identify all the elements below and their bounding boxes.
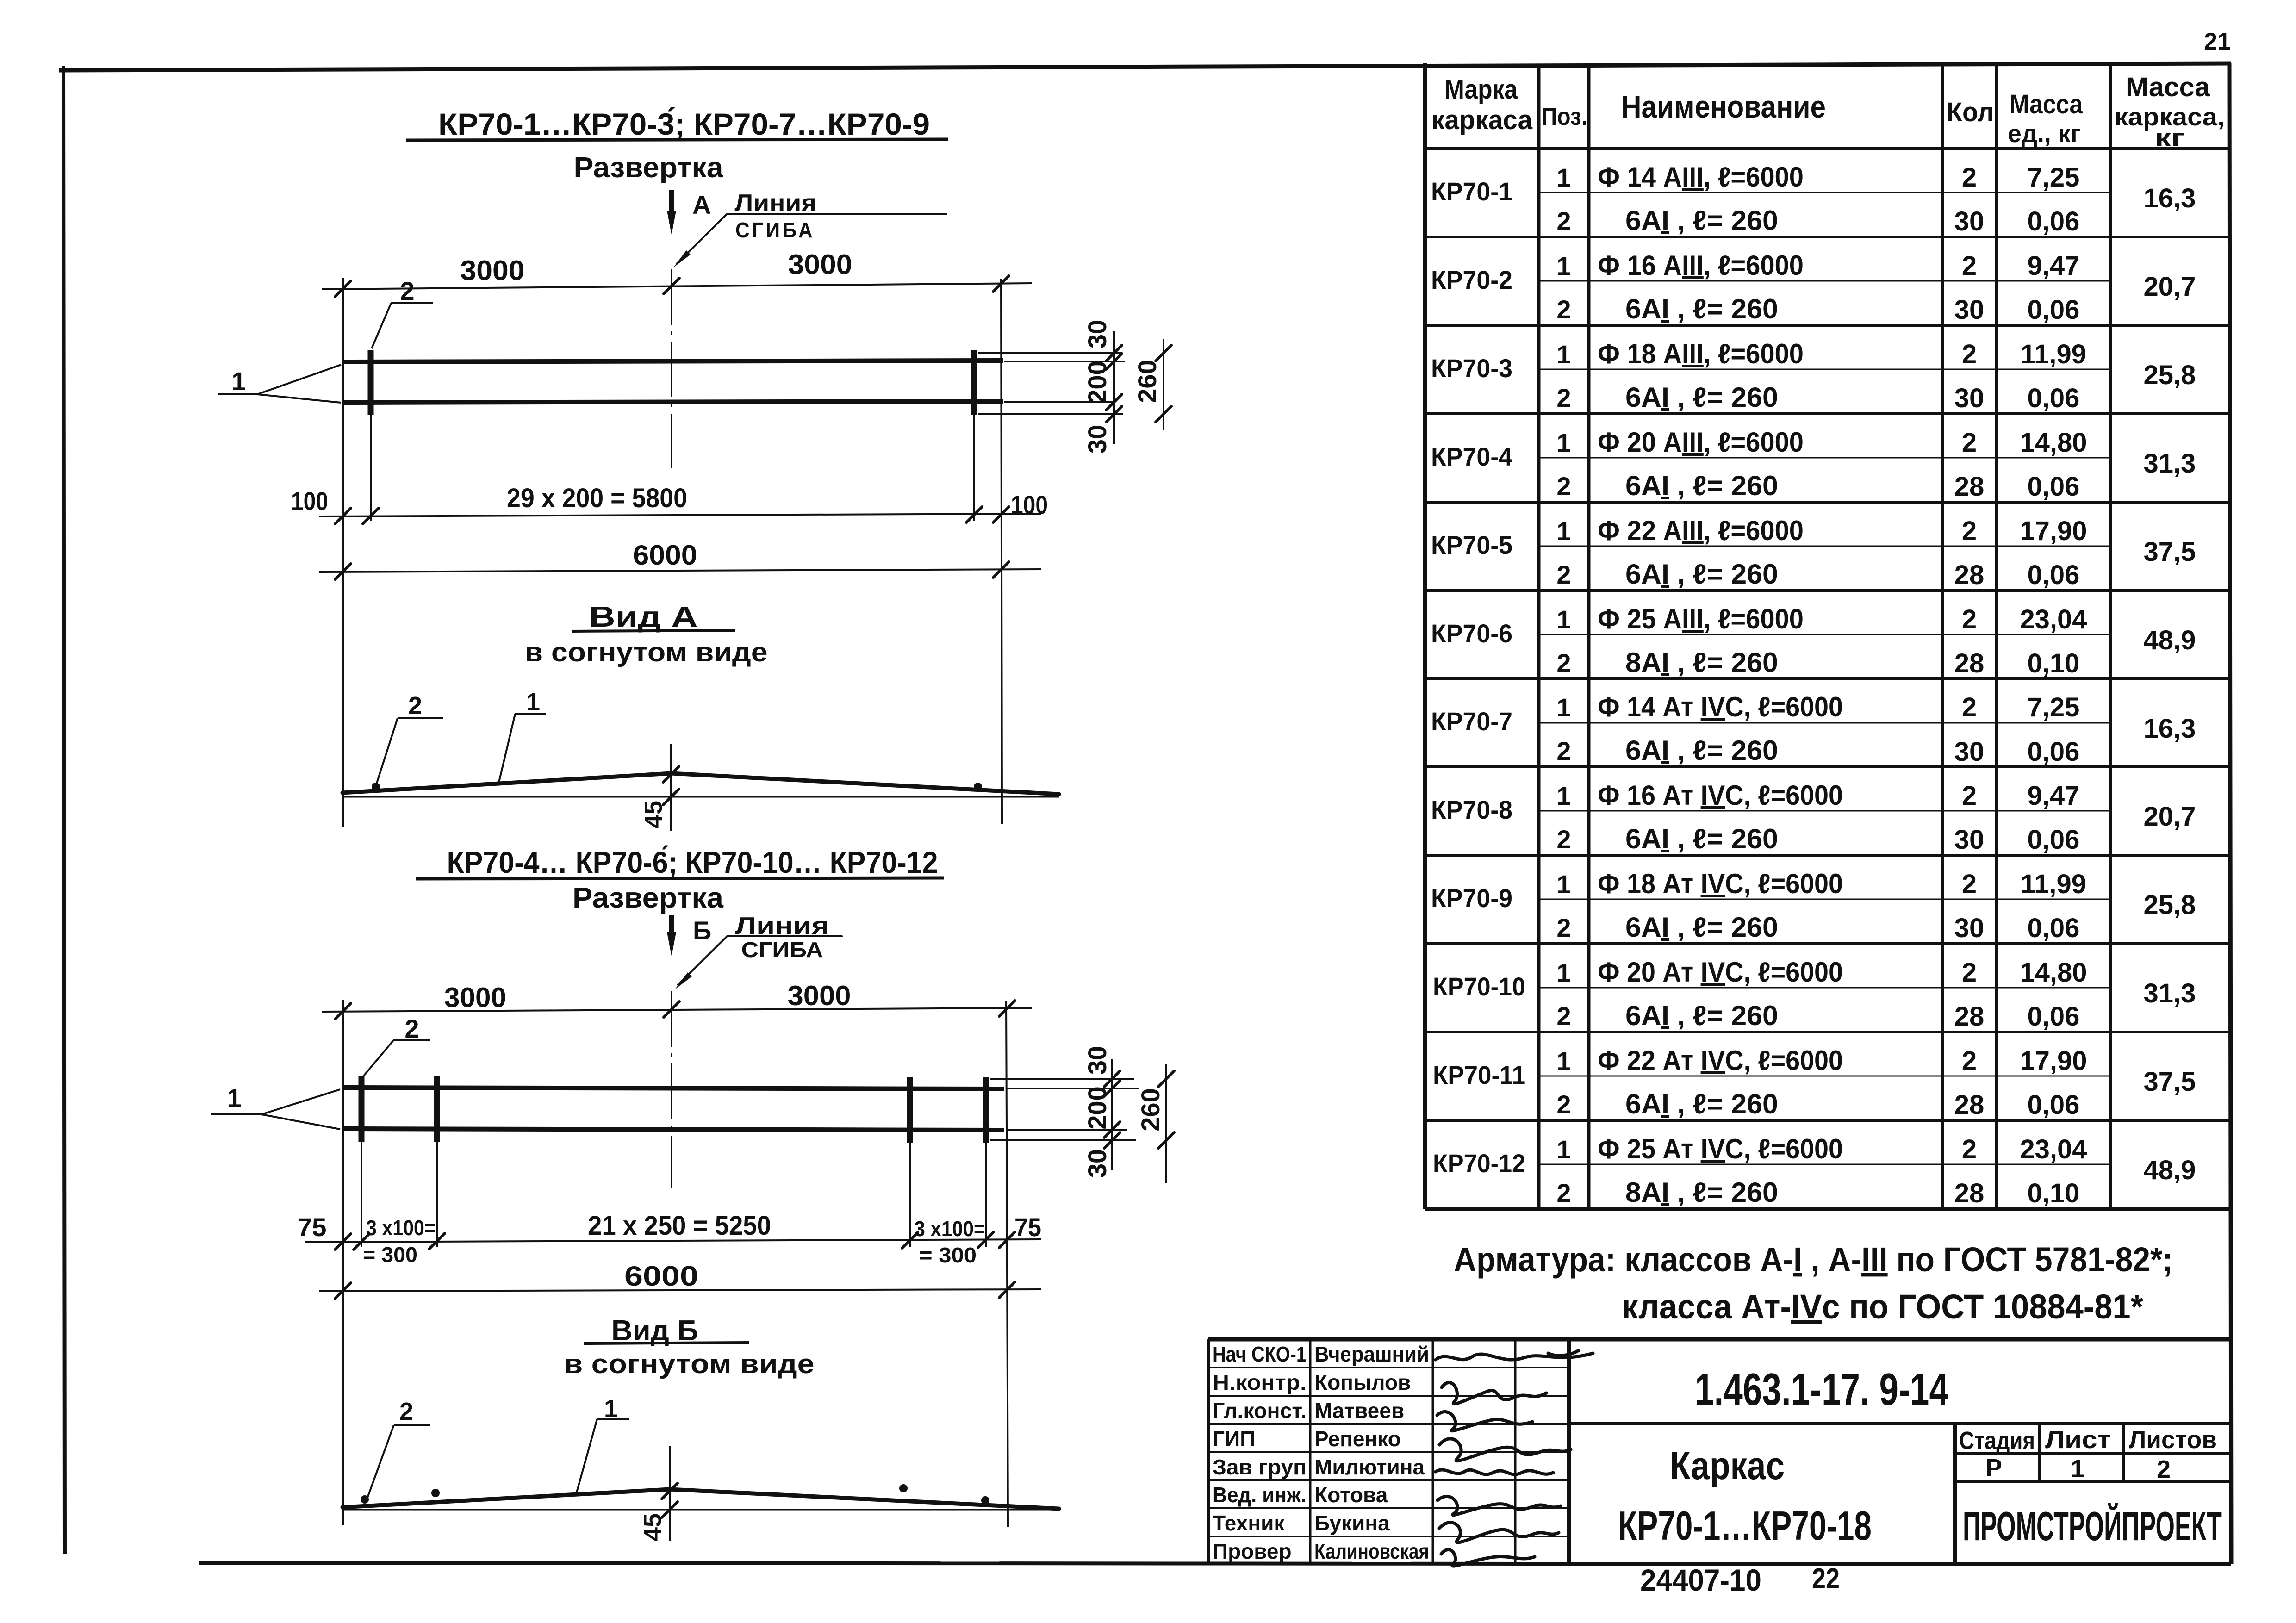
svg-text:Матвеев: Матвеев: [1314, 1399, 1404, 1423]
pos 2 cell КР70-7: [1556, 736, 1571, 765]
svg-text:Наименование: Наименование: [1621, 89, 1826, 124]
dimension 45 (view A): [640, 744, 679, 831]
svg-text:Милютина: Милютина: [1314, 1455, 1425, 1479]
svg-text:КР70-7: КР70-7: [1431, 707, 1512, 736]
svg-text:75: 75: [1014, 1213, 1041, 1242]
svg-text:Вид А: Вид А: [589, 601, 698, 633]
svg-text:КР70-1: КР70-1: [1431, 177, 1512, 206]
sheet copy number 22: [1812, 1563, 1840, 1595]
svg-text:24407-10: 24407-10: [1640, 1563, 1761, 1597]
label Линия сгиба (drawing 2): [675, 913, 842, 989]
qty 1 cell КР70-10: [1962, 958, 1977, 988]
parts table header bottom border: [1425, 147, 2229, 150]
svg-text:Копылов: Копылов: [1314, 1370, 1411, 1394]
mark cell КР70-7: [1431, 707, 1512, 736]
svg-text:3 x100=: 3 x100=: [915, 1217, 985, 1241]
centerline fold line (drawing 1): [671, 269, 672, 468]
svg-text:6АI , ℓ= 260: 6АI , ℓ= 260: [1625, 293, 1778, 324]
parts table outer border: [1425, 63, 2229, 1209]
organization ПРОМСТРОЙПРОЕКТ: [1963, 1503, 2222, 1549]
view A subtitle: [525, 637, 768, 667]
svg-text:20,7: 20,7: [2144, 802, 2196, 832]
stirrup position 2 inner-right (drawing 2): [907, 1077, 913, 1247]
pos 2 cell КР70-11: [1556, 1090, 1571, 1119]
svg-text:17,90: 17,90: [2020, 516, 2087, 546]
pos 2 cell КР70-4: [1556, 472, 1571, 501]
svg-text:Вед. инж.: Вед. инж.: [1213, 1483, 1307, 1507]
sheet frame: left border line: [63, 66, 65, 1554]
svg-text:в согнутом виде: в согнутом виде: [564, 1349, 815, 1379]
leader 1 to bars (drawing 1): [218, 365, 341, 403]
svg-text:1: 1: [1556, 693, 1571, 722]
svg-text:класса Ат-IVс по ГОСТ 10884: класса Ат-IVс по ГОСТ 10884-81*: [1622, 1287, 2143, 1326]
svg-text:2: 2: [1556, 825, 1571, 854]
leader 1 (view A): [499, 688, 546, 782]
drawing 1 title KP70-1...KP70-9: [406, 107, 948, 141]
svg-text:2: 2: [400, 276, 414, 305]
svg-text:Букина: Букина: [1314, 1511, 1390, 1535]
svg-text:А: А: [692, 190, 711, 219]
right extension lines 30/200/30 (drawing 2): [990, 1079, 1139, 1140]
sub-row divider КР70-5: [1539, 546, 2110, 547]
bar position 1 top (drawing 1): [342, 361, 1003, 362]
name 2 cell КР70-12: [1625, 1177, 1778, 1208]
svg-text:КР70-5: КР70-5: [1431, 530, 1512, 560]
svg-text:6АI , ℓ= 260: 6АI , ℓ= 260: [1625, 382, 1778, 413]
fold arrow B: [667, 915, 711, 956]
parts table column borders: [1539, 64, 2110, 1209]
view B subtitle: [564, 1349, 815, 1379]
svg-text:3000: 3000: [460, 255, 525, 286]
qty 1 cell КР70-3: [1962, 339, 1977, 369]
pos 2 cell КР70-2: [1556, 295, 1571, 324]
svg-text:100: 100: [1011, 490, 1048, 519]
role: ГИП: [1213, 1427, 1255, 1451]
unit mass 2 cell КР70-6: [2028, 648, 2080, 678]
stirrup dot 3 (view B): [899, 1484, 908, 1492]
svg-text:0,06: 0,06: [2028, 1001, 2080, 1032]
svg-text:2: 2: [1962, 958, 1977, 988]
svg-text:1: 1: [1556, 251, 1571, 280]
sub-row divider КР70-12: [1539, 1164, 2110, 1165]
dimension line 6000 (drawing 2): [319, 1261, 1041, 1299]
mark cell КР70-10: [1433, 972, 1525, 1001]
pos 1 cell КР70-9: [1556, 870, 1571, 899]
svg-text:6000: 6000: [633, 540, 697, 571]
svg-text:Лист: Лист: [2045, 1426, 2111, 1454]
row border above КР70-4: [1425, 412, 2229, 415]
svg-text:Ф 22 Ат IVС, ℓ=6000: Ф 22 Ат IVС, ℓ=6000: [1598, 1045, 1843, 1076]
pos 1 cell КР70-8: [1556, 781, 1571, 810]
svg-text:28: 28: [1954, 560, 1985, 590]
svg-text:2: 2: [1556, 648, 1571, 678]
row border above КР70-9: [1425, 854, 2229, 857]
dimension line 3000+3000 (drawing 2): [322, 980, 1032, 1019]
unit mass 1 cell КР70-2: [2028, 251, 2080, 281]
svg-text:200: 200: [1083, 361, 1112, 404]
mark cell КР70-5: [1431, 530, 1512, 560]
svg-text:28: 28: [1954, 472, 1985, 502]
bent bar (view A): [342, 773, 1059, 794]
mark cell КР70-9: [1431, 883, 1512, 913]
svg-text:20,7: 20,7: [2144, 272, 2196, 302]
role: Нач СКО-1: [1213, 1342, 1307, 1366]
svg-text:кг: кг: [2155, 124, 2184, 152]
pos 1 cell КР70-12: [1556, 1135, 1571, 1164]
unit mass 1 cell КР70-6: [2020, 604, 2087, 634]
qty 1 cell КР70-6: [1962, 604, 1977, 634]
signature squiggle row 7: [1439, 1523, 1559, 1542]
pos 1 cell КР70-2: [1556, 251, 1571, 280]
qty 1 cell КР70-1: [1962, 162, 1977, 193]
name 2 cell КР70-3: [1625, 382, 1778, 413]
svg-text:3000: 3000: [444, 982, 506, 1013]
label 30 bottom (drawing 2): [1083, 1149, 1112, 1178]
label 30 top (drawing 1): [1083, 320, 1112, 348]
leader 2 to stirrup (drawing 1): [372, 276, 433, 348]
svg-text:2: 2: [1962, 692, 1977, 722]
cage mass cell КР70-3: [2144, 360, 2196, 390]
svg-text:Техник: Техник: [1213, 1511, 1285, 1535]
role: Техник: [1213, 1511, 1285, 1535]
qty 2 cell КР70-4: [1954, 472, 1985, 502]
svg-text:30: 30: [1083, 425, 1112, 454]
parts table header: Кол: [1947, 97, 1994, 127]
svg-text:2: 2: [399, 1398, 413, 1425]
svg-text:14,80: 14,80: [2020, 958, 2087, 988]
signature table row border 7: [1208, 1536, 1569, 1537]
view A title: [572, 601, 735, 633]
svg-text:3 x100=: 3 x100=: [366, 1216, 436, 1240]
svg-text:7,25: 7,25: [2028, 692, 2080, 722]
svg-text:2: 2: [2157, 1455, 2171, 1483]
svg-text:0,06: 0,06: [2028, 825, 2080, 855]
name 2 cell КР70-6: [1625, 647, 1778, 678]
signature squiggle row 1: [1436, 1350, 1593, 1360]
svg-text:2: 2: [1556, 295, 1571, 324]
fold arrow A: [667, 190, 711, 235]
bar position 1 top (drawing 2): [342, 1088, 1004, 1089]
name 1 cell КР70-4: 20: [1598, 427, 1804, 458]
parts table header: Марка каркаса: [1431, 75, 1533, 135]
svg-text:КР70-12: КР70-12: [1433, 1149, 1525, 1178]
dimension 45 (view B): [639, 1446, 678, 1541]
svg-text:Зав груп: Зав груп: [1213, 1455, 1307, 1479]
sheet frame: right border line: [2229, 63, 2231, 1564]
svg-text:1: 1: [526, 688, 540, 716]
svg-text:= 300: = 300: [919, 1243, 977, 1267]
svg-text:6АI , ℓ= 260: 6АI , ℓ= 260: [1625, 205, 1778, 236]
pos 1 cell КР70-5: [1556, 516, 1571, 546]
svg-text:200: 200: [1083, 1086, 1112, 1129]
name: Матвеев: [1314, 1399, 1404, 1423]
stirrup position 2 inner-left (drawing 2): [434, 1076, 440, 1247]
label 200 (drawing 1): [1083, 361, 1112, 404]
dimension line 260 vertical (drawing 2): [1158, 1064, 1174, 1183]
svg-text:6000: 6000: [624, 1261, 698, 1292]
svg-text:Масса: Масса: [2126, 72, 2210, 102]
mark cell КР70-2: [1431, 265, 1512, 294]
role: Вед. инж.: [1213, 1483, 1307, 1507]
svg-text:30: 30: [1954, 295, 1985, 325]
cage mass cell КР70-10: [2144, 978, 2196, 1008]
label 30 top (drawing 2): [1083, 1046, 1112, 1075]
svg-text:6АI , ℓ= 260: 6АI , ℓ= 260: [1625, 1000, 1778, 1031]
svg-text:СГИБА: СГИБА: [741, 938, 823, 962]
svg-text:в согнутом виде: в согнутом виде: [525, 637, 768, 667]
svg-text:Кол: Кол: [1947, 97, 1994, 127]
qty 2 cell КР70-8: [1954, 825, 1985, 855]
svg-text:КР70-4… КР70-6́; КР70-10… КР70: КР70-4… КР70-6́; КР70-10… КР70-12: [447, 845, 938, 879]
svg-text:6АI , ℓ= 260: 6АI , ℓ= 260: [1625, 559, 1778, 590]
qty 2 cell КР70-6: [1954, 648, 1985, 678]
value sheet 1: [2071, 1455, 2084, 1483]
label 260 (drawing 2): [1136, 1088, 1165, 1131]
unit mass 1 cell КР70-7: [2028, 692, 2080, 722]
svg-text:6АI , ℓ= 260: 6АI , ℓ= 260: [1625, 823, 1778, 854]
svg-text:Развертка: Развертка: [574, 152, 724, 184]
drawing 2 subtitle Развертка: [572, 882, 724, 914]
svg-text:30: 30: [1083, 1046, 1112, 1075]
extension line right (drawing 2): [1006, 1001, 1008, 1527]
pos 2 cell КР70-8: [1556, 825, 1571, 854]
row border above КР70-10: [1425, 942, 2229, 945]
svg-text:2: 2: [1556, 560, 1571, 589]
qty 1 cell КР70-7: [1962, 692, 1977, 722]
name 2 cell КР70-10: [1625, 1000, 1778, 1031]
svg-text:1: 1: [1556, 163, 1571, 192]
cage mass cell КР70-12: [2144, 1155, 2196, 1185]
svg-text:КР70-1…КР70-18: КР70-1…КР70-18: [1618, 1503, 1872, 1548]
svg-text:100: 100: [291, 486, 328, 516]
parts table header: Масса каркаса, кг: [2115, 72, 2225, 152]
signature table row border 1: [1208, 1367, 1569, 1368]
svg-text:31,3: 31,3: [2144, 448, 2196, 479]
svg-text:30: 30: [1083, 1149, 1112, 1178]
unit mass 1 cell КР70-11: [2020, 1046, 2087, 1076]
pos 2 cell КР70-1: [1556, 206, 1571, 236]
extension line right (drawing 1): [1001, 279, 1002, 824]
unit mass 1 cell КР70-8: [2028, 781, 2080, 811]
svg-text:каркаса: каркаса: [1431, 105, 1533, 135]
svg-text:22: 22: [1812, 1563, 1840, 1595]
cage mass cell КР70-5: [2144, 537, 2196, 567]
svg-text:Марка: Марка: [1444, 75, 1518, 105]
qty 2 cell КР70-5: [1954, 560, 1985, 590]
svg-text:2: 2: [1962, 1134, 1977, 1164]
parts table header: Поз.: [1541, 103, 1587, 131]
drawing 2 title KP70-4...KP70-12: [416, 845, 944, 879]
svg-text:2: 2: [1962, 251, 1977, 281]
svg-text:2: 2: [1962, 516, 1977, 546]
svg-text:3000: 3000: [788, 980, 851, 1011]
svg-text:Ф 20 Ат IVС, ℓ=6000: Ф 20 Ат IVС, ℓ=6000: [1598, 957, 1843, 988]
qty 2 cell КР70-2: [1954, 295, 1985, 325]
name 1 cell КР70-8: 16: [1598, 780, 1843, 811]
svg-text:КР70-10: КР70-10: [1433, 972, 1525, 1001]
pos 2 cell КР70-9: [1556, 913, 1571, 942]
svg-text:Ф 18 Ат IVС, ℓ=6000: Ф 18 Ат IVС, ℓ=6000: [1598, 868, 1843, 899]
svg-text:КР70-2: КР70-2: [1431, 265, 1512, 294]
sub-row divider КР70-7: [1539, 722, 2110, 724]
leader 1 (view B): [576, 1395, 629, 1494]
svg-text:21 x 250 = 5250: 21 x 250 = 5250: [588, 1211, 771, 1241]
svg-text:Ф 16 Ат IVС, ℓ=6000: Ф 16 Ат IVС, ℓ=6000: [1598, 780, 1843, 811]
svg-text:Развертка: Развертка: [572, 882, 724, 914]
svg-text:Арматура: классов А-I , А-II: Арматура: классов А-I , А-III по ГОСТ 57…: [1454, 1240, 2173, 1279]
sub-row divider КР70-9: [1539, 899, 2110, 900]
svg-text:25,8: 25,8: [2144, 360, 2196, 390]
stirrup dot left (view A): [372, 783, 380, 791]
svg-text:23,04: 23,04: [2020, 604, 2087, 634]
svg-text:Н.контр.: Н.контр.: [1213, 1370, 1307, 1394]
name 1 cell КР70-1: 14: [1598, 162, 1804, 193]
svg-text:Линия: Линия: [735, 190, 817, 217]
qty 1 cell КР70-11: [1962, 1046, 1977, 1076]
stirrup position 2 outer-right (drawing 2): [983, 1077, 989, 1247]
role: Гл.конст.: [1213, 1399, 1307, 1423]
signature squiggle row 3: [1437, 1412, 1532, 1430]
sub-row divider КР70-3: [1539, 369, 2110, 370]
svg-text:0,06: 0,06: [2028, 295, 2080, 325]
unit mass 2 cell КР70-9: [2028, 913, 2080, 943]
svg-text:Гл.конст.: Гл.конст.: [1213, 1399, 1307, 1423]
qty 1 cell КР70-9: [1962, 869, 1977, 899]
stage box header bottom border: [1955, 1452, 2230, 1455]
sheet frame: top border line: [59, 63, 2231, 70]
svg-text:1: 1: [1556, 516, 1571, 546]
value stage Р: [1985, 1454, 2002, 1482]
svg-text:Ф 14 Ат IVС, ℓ=6000: Ф 14 Ат IVС, ℓ=6000: [1598, 691, 1843, 722]
label 200 (drawing 2): [1083, 1086, 1112, 1129]
svg-text:Ф 25 АIII, ℓ=6000: Ф 25 АIII, ℓ=6000: [1598, 603, 1804, 634]
header Листов: [2129, 1426, 2217, 1454]
svg-text:2: 2: [1962, 339, 1977, 369]
row border above КР70-3: [1425, 324, 2229, 327]
name 1 cell КР70-11: 22: [1598, 1045, 1843, 1076]
svg-text:1: 1: [1556, 1046, 1571, 1076]
svg-text:30: 30: [1083, 320, 1112, 348]
svg-text:16,3: 16,3: [2144, 183, 2196, 213]
unit mass 1 cell КР70-3: [2021, 339, 2086, 369]
signature table row border 3: [1208, 1423, 1569, 1425]
unit mass 2 cell КР70-10: [2028, 1001, 2080, 1032]
name 1 cell КР70-12: 25: [1598, 1133, 1843, 1164]
name: Калиновская: [1314, 1539, 1429, 1563]
stirrup position 2 outer-left (drawing 2): [359, 1076, 365, 1247]
svg-text:2: 2: [1962, 604, 1977, 634]
stage box left border: [1953, 1424, 1957, 1564]
main box divider under document number: [1569, 1422, 2230, 1425]
signature squiggle row 6: [1437, 1496, 1561, 1515]
svg-text:6АI , ℓ= 260: 6АI , ℓ= 260: [1625, 735, 1778, 766]
qty 1 cell КР70-5: [1962, 516, 1977, 546]
sub-row divider КР70-2: [1539, 280, 2110, 282]
page number 21: [2204, 28, 2231, 55]
svg-text:Ф 25 Ат IVС, ℓ=6000: Ф 25 Ат IVС, ℓ=6000: [1598, 1133, 1843, 1164]
svg-text:1: 1: [1556, 605, 1571, 634]
name 1 cell КР70-5: 22: [1598, 515, 1804, 546]
signature table row border 6: [1208, 1507, 1569, 1509]
svg-text:ПРОМСТРОЙПРОЕКТ: ПРОМСТРОЙПРОЕКТ: [1963, 1503, 2222, 1549]
dimension line 260 vertical (drawing 1): [1156, 339, 1171, 430]
svg-text:30: 30: [1954, 737, 1985, 767]
qty 2 cell КР70-3: [1954, 383, 1985, 413]
name 2 cell КР70-7: [1625, 735, 1778, 766]
svg-text:0,06: 0,06: [2028, 737, 2080, 767]
value sheets 2: [2157, 1455, 2171, 1483]
name 1 cell КР70-3: 18: [1598, 338, 1804, 369]
name: Котова: [1314, 1483, 1388, 1507]
leader 2 (view A): [377, 692, 443, 783]
chord reference line (view B): [342, 1509, 1059, 1511]
name: Репенко: [1314, 1427, 1401, 1451]
mark cell КР70-6: [1431, 619, 1512, 648]
svg-text:1: 1: [227, 1083, 241, 1113]
row border above КР70-7: [1425, 677, 2229, 680]
svg-text:75: 75: [298, 1213, 327, 1242]
qty 2 cell КР70-9: [1954, 913, 1985, 943]
bar position 1 bottom (drawing 1): [342, 401, 1003, 403]
pos 1 cell КР70-3: [1556, 340, 1571, 369]
svg-text:28: 28: [1954, 1090, 1985, 1120]
svg-text:1: 1: [1556, 428, 1571, 457]
sub-row divider КР70-8: [1539, 810, 2110, 812]
sub-row divider КР70-1: [1539, 192, 2110, 193]
note: reinforcement classes line 1: [1454, 1240, 2173, 1279]
svg-text:Поз.: Поз.: [1541, 103, 1587, 131]
unit mass 2 cell КР70-3: [2028, 383, 2080, 413]
dimension line 30/200/30 vertical (drawing 1): [1106, 331, 1122, 444]
svg-text:30: 30: [1954, 383, 1985, 413]
cage mass cell КР70-1: [2144, 183, 2196, 213]
name 2 cell КР70-9: [1625, 912, 1778, 943]
name 1 cell КР70-6: 25: [1598, 603, 1804, 634]
cage mass cell КР70-8: [2144, 802, 2196, 832]
extension line left (drawing 1): [342, 278, 344, 827]
svg-text:2: 2: [1556, 1001, 1571, 1031]
signature squiggle row 2: [1442, 1383, 1546, 1404]
row border above КР70-2: [1425, 236, 2229, 238]
unit mass 2 cell КР70-2: [2028, 295, 2080, 325]
svg-text:КР70-1…КР70-3́; КР70-7…КР70-9: КР70-1…КР70-3́; КР70-7…КР70-9: [438, 107, 930, 141]
pos 2 cell КР70-3: [1556, 383, 1571, 412]
role: Зав груп: [1213, 1455, 1307, 1479]
signature table / main box divider: [1567, 1339, 1571, 1564]
svg-text:2: 2: [404, 1014, 419, 1043]
stirrup dot 4 (view B): [981, 1496, 989, 1505]
svg-text:9,47: 9,47: [2028, 781, 2080, 811]
signature table column borders: [1310, 1339, 1515, 1564]
name 1 cell КР70-2: 16: [1598, 250, 1804, 281]
stirrup dot 1 (view B): [361, 1495, 369, 1504]
svg-text:ГИП: ГИП: [1213, 1427, 1255, 1451]
svg-text:Репенко: Репенко: [1314, 1427, 1401, 1451]
row border above КР70-5: [1425, 501, 2229, 504]
extension line left (drawing 2): [342, 1000, 344, 1525]
stage box values bottom border: [1955, 1480, 2230, 1483]
svg-text:25,8: 25,8: [2144, 890, 2196, 920]
svg-text:1: 1: [1556, 870, 1571, 899]
svg-text:17,90: 17,90: [2020, 1046, 2087, 1076]
svg-text:2: 2: [1962, 428, 1977, 458]
mark cell КР70-4: [1431, 442, 1512, 471]
svg-text:1: 1: [1556, 1135, 1571, 1164]
label 260 (drawing 1): [1132, 360, 1162, 403]
svg-text:Масса: Масса: [2010, 89, 2083, 119]
cage mass cell КР70-2: [2144, 272, 2196, 302]
svg-text:Листов: Листов: [2129, 1426, 2217, 1454]
